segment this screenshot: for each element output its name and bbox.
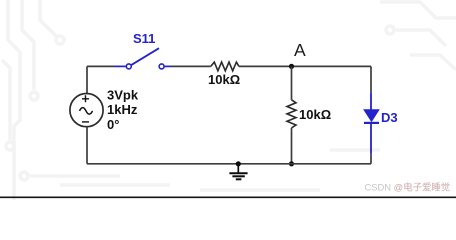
resistor 10k vertical body (287, 100, 296, 128)
svg-text:0°: 0° (107, 117, 119, 132)
svg-text:S11: S11 (133, 31, 155, 46)
svg-text:1kHz: 1kHz (107, 102, 138, 117)
source V1 minus sign (82, 121, 89, 123)
wire: right rail upper (370, 66, 372, 92)
switch S11 left terminal (126, 64, 131, 69)
svg-text:D3: D3 (381, 110, 398, 125)
ground symbol (229, 164, 247, 180)
wire: top-left vertical from source to top rail (86, 66, 88, 93)
source V1 sine wave (80, 108, 93, 115)
wire: source bottom lead (86, 127, 88, 164)
svg-text:A: A (294, 40, 306, 60)
node A junction dot (289, 64, 294, 69)
wire: top rail left segment to switch (87, 65, 114, 67)
switch S11 blade (131, 48, 159, 65)
bottom border line (0, 196, 456, 198)
wire: bottom rail (87, 163, 371, 165)
source V1 plus sign (82, 95, 89, 102)
wire: right rail lower (370, 154, 372, 164)
svg-text:10kΩ: 10kΩ (299, 107, 331, 122)
wire: vertical resistor to bottom rail (291, 128, 293, 164)
wire: top rail resistor to right corner (239, 65, 371, 67)
svg-text:3Vpk: 3Vpk (107, 88, 139, 103)
ground junction dot (236, 161, 241, 166)
source V1 circle (70, 94, 103, 127)
switch S11 left lead (114, 65, 126, 67)
diode D3 anode lead (370, 92, 372, 110)
switch S11 right terminal (159, 64, 164, 69)
wire: top rail to resistor (171, 65, 211, 67)
junction dot resistor-bottom rail (289, 161, 294, 166)
wire: branch A down to vertical resistor (291, 66, 293, 99)
svg-text:10kΩ: 10kΩ (208, 72, 240, 87)
diode D3 triangle (364, 110, 379, 122)
diode D3 cathode bar (364, 122, 379, 124)
diode D3 cathode lead (370, 123, 372, 154)
svg-text:CSDN @电子爱睡觉: CSDN @电子爱睡觉 (365, 182, 451, 193)
resistor 10k horizontal body (211, 62, 239, 71)
switch S11 right lead (164, 65, 170, 67)
